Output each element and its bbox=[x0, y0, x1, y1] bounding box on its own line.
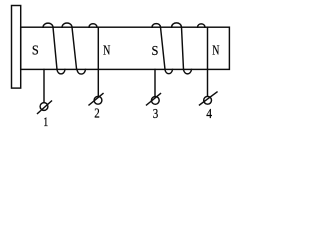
coil L2 top arc a2 bbox=[172, 23, 182, 27]
coil L2 bottom arc b2 bbox=[184, 70, 192, 74]
coil L1 bottom arc b2 bbox=[77, 70, 86, 75]
svg-text:3: 3 bbox=[153, 107, 159, 122]
coil L2 diagonal d1 bbox=[161, 27, 166, 69]
terminal 2 circle bbox=[94, 96, 102, 104]
terminal 4 slash bbox=[200, 92, 218, 105]
terminal 1 slash bbox=[38, 101, 52, 114]
coil L1 top arc a1 bbox=[43, 23, 53, 27]
coil L2 diagonal d2 bbox=[182, 27, 184, 69]
terminal 2 slash bbox=[89, 94, 103, 106]
terminal 4 circle bbox=[204, 96, 212, 104]
svg-text:4: 4 bbox=[206, 107, 212, 122]
wire terminal2 lead bbox=[97, 27, 99, 96]
coil L1 top arc a3 bbox=[89, 24, 97, 27]
wire terminal1 lead bbox=[43, 70, 45, 103]
coil L2 bottom arc b1 bbox=[165, 70, 173, 74]
wire terminal4 lead bbox=[207, 27, 209, 96]
svg-text:N: N bbox=[212, 43, 219, 58]
wall bar (left support) bbox=[12, 6, 21, 89]
coil L1 top arc a2 bbox=[62, 23, 72, 27]
svg-text:1: 1 bbox=[43, 114, 48, 128]
svg-text:2: 2 bbox=[94, 107, 100, 122]
terminal 3 circle bbox=[151, 97, 159, 105]
svg-text:N: N bbox=[103, 43, 110, 58]
wire terminal3 lead bbox=[154, 70, 156, 97]
coil L1 bottom arc b1 bbox=[57, 70, 65, 74]
terminal 1 circle bbox=[40, 103, 48, 111]
coil L2 top arc a3 bbox=[198, 24, 206, 27]
coil L2 top arc a1 bbox=[152, 24, 161, 28]
terminal 3 slash bbox=[147, 94, 161, 106]
core (horizontal bar) bbox=[21, 27, 230, 69]
svg-text:S: S bbox=[32, 44, 39, 59]
svg-text:S: S bbox=[152, 44, 159, 59]
coil L1 diagonal d2 bbox=[72, 27, 77, 69]
coil L1 diagonal d1 bbox=[53, 27, 57, 69]
